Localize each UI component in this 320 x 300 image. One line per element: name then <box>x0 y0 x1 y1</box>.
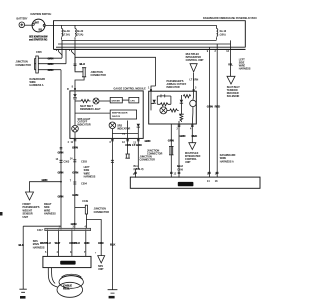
svg-text:GRN: GRN <box>180 134 186 138</box>
svg-text:HARNESS: HARNESS <box>84 176 96 179</box>
svg-text:UNIT: UNIT <box>185 161 191 164</box>
svg-text:HARNESS: HARNESS <box>33 246 45 249</box>
svg-text:(7.5A): (7.5A) <box>77 34 84 37</box>
svg-text:GRN: GRN <box>48 62 54 66</box>
svg-text:REMINDER LIGHT: REMINDER LIGHT <box>80 108 101 111</box>
svg-text:BLK: BLK <box>110 243 115 247</box>
svg-text:ORN/BLU: ORN/BLU <box>69 242 80 245</box>
svg-text:INDICATOR: INDICATOR <box>78 123 91 126</box>
svg-text:SRS UNIT: SRS UNIT <box>62 261 75 265</box>
svg-text:ORN: ORN <box>84 241 90 245</box>
svg-text:No.39: No.39 <box>63 30 70 33</box>
svg-text:(7.5A): (7.5A) <box>63 34 70 37</box>
svg-text:GRN: GRN <box>145 139 151 143</box>
svg-text:ORN: ORN <box>98 241 104 245</box>
svg-text:C503: C503 <box>81 160 87 163</box>
svg-text:C504: C504 <box>81 182 87 185</box>
svg-text:BATTERY: BATTERY <box>17 17 28 20</box>
svg-text:CONTROL UNIT: CONTROL UNIT <box>186 59 205 62</box>
svg-text:SOLENOID: SOLENOID <box>227 95 240 98</box>
svg-text:GRN: GRN <box>48 56 54 60</box>
svg-text:GRN: GRN <box>48 68 54 72</box>
svg-text:LT GRN: LT GRN <box>132 143 141 147</box>
svg-text:HARNESS A: HARNESS A <box>220 160 234 163</box>
svg-text:HARNESS A: HARNESS A <box>30 84 44 87</box>
svg-text:No.32: No.32 <box>77 30 84 33</box>
svg-text:DASHBOARD UNDER-DASH FUSE/RELA: DASHBOARD UNDER-DASH FUSE/RELAY BOX <box>203 17 257 20</box>
svg-text:LT GRN: LT GRN <box>190 78 199 81</box>
svg-text:RED: RED <box>215 104 221 108</box>
svg-text:C506: C506 <box>177 168 183 171</box>
svg-text:IGNITION SWITCH: IGNITION SWITCH <box>31 13 52 16</box>
svg-text:GRN: GRN <box>42 178 48 182</box>
svg-text:GRN: GRN <box>207 104 213 108</box>
svg-text:ORN: ORN <box>125 143 131 147</box>
svg-text:C503: C503 <box>64 161 70 164</box>
svg-text:WHT: WHT <box>55 241 61 245</box>
svg-text:CONNECTOR: CONNECTOR <box>16 64 32 67</box>
svg-text:GRN: GRN <box>168 139 174 143</box>
svg-text:GRN: GRN <box>58 195 64 199</box>
svg-text:GRN: GRN <box>58 151 64 155</box>
svg-text:No.13: No.13 <box>220 30 227 33</box>
svg-text:SRS UNIT: SRS UNIT <box>179 182 192 186</box>
svg-text:DRIVER: DRIVER <box>112 101 121 103</box>
svg-text:C449: C449 <box>82 200 88 203</box>
svg-text:BLU: BLU <box>80 62 85 66</box>
svg-text:GRN: GRN <box>72 146 78 150</box>
svg-text:YEL: YEL <box>228 62 233 66</box>
svg-text:(10A): (10A) <box>220 34 226 37</box>
svg-text:BLK: BLK <box>19 243 24 247</box>
svg-text:GAUGE CONTROL MODULE: GAUGE CONTROL MODULE <box>114 87 147 90</box>
svg-text:CONNECTOR: CONNECTOR <box>140 159 156 162</box>
svg-text:GRN: GRN <box>58 171 64 175</box>
svg-text:UNIT: UNIT <box>98 268 104 271</box>
svg-text:CONNECTOR: CONNECTOR <box>147 152 163 155</box>
svg-text:RED: RED <box>192 134 198 138</box>
svg-text:INDICATOR: INDICATOR <box>167 86 180 89</box>
svg-text:UNIT: UNIT <box>23 216 29 219</box>
svg-text:HARNESS: HARNESS <box>44 213 56 216</box>
svg-text:REEL: REEL <box>63 287 70 291</box>
svg-text:GRN: GRN <box>72 171 78 175</box>
svg-text:CONNECTOR: CONNECTOR <box>91 74 107 77</box>
svg-text:WHT/BLU: WHT/BLU <box>40 242 51 245</box>
svg-text:(LT BLU): (LT BLU) <box>134 168 144 171</box>
svg-text:GRN: GRN <box>72 193 78 197</box>
svg-text:HARNESS: HARNESS <box>239 67 251 70</box>
svg-text:C505: C505 <box>36 51 42 54</box>
svg-text:INDICATOR: INDICATOR <box>117 127 130 130</box>
svg-text:CONNECTOR: CONNECTOR <box>94 211 110 214</box>
svg-text:and STARTER RG: and STARTER RG <box>29 39 47 42</box>
svg-text:BEEP/BUZZER: BEEP/BUZZER <box>112 113 128 115</box>
svg-text:DEVICE: DEVICE <box>112 116 121 118</box>
svg-text:CPU: CPU <box>130 101 135 103</box>
svg-text:C417: C417 <box>37 229 43 232</box>
svg-text:(*2): (*2) <box>122 133 126 135</box>
